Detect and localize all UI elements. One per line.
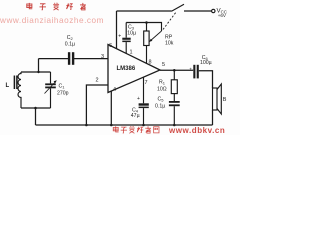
node: tank bottom junction (34, 107, 37, 110)
svg-text:5: 5 (162, 62, 165, 68)
capacitor C3 10u (pin1 to node A) (118, 23, 136, 54)
svg-text:8: 8 (149, 60, 152, 66)
wire: pin 7 down (143, 77, 145, 103)
wire: pin 2 to ground (86, 85, 108, 125)
wire: Vcc top rail from pin6 riser to switch (117, 10, 172, 12)
terminal Vcc (212, 9, 215, 12)
node: pin4 ground dot (110, 124, 113, 127)
wire: tank top rail (21, 71, 51, 73)
wire: switch to Vcc terminal (184, 10, 212, 12)
capacitor C6 100u output (189, 55, 211, 79)
wire: input to pin 3 (39, 58, 69, 60)
op-amp U1 LM386 triangle (108, 45, 160, 93)
wire: pin 5 output (160, 69, 193, 71)
svg-text:0.1µ: 0.1µ (65, 41, 75, 47)
svg-text:100µ: 100µ (200, 60, 212, 66)
svg-text:3: 3 (101, 54, 104, 60)
svg-text:7: 7 (145, 80, 148, 86)
wire: input drop to tank (38, 59, 40, 72)
svg-text:www.dianziaihaozhe.com: www.dianziaihaozhe.com (0, 16, 104, 25)
svg-text:+: + (189, 67, 192, 72)
potentiometer RP 10k (144, 23, 174, 64)
svg-text:L: L (6, 83, 10, 89)
svg-text:0.1µ: 0.1µ (155, 104, 165, 110)
switch S (ganged with RP) blade (172, 4, 185, 11)
svg-text:C1: C1 (59, 84, 66, 90)
wire: gain node A (C3 top / RP top) (126, 23, 161, 32)
node: C5 ground dot (173, 124, 176, 127)
inductor L (6, 72, 22, 108)
svg-text:10µ: 10µ (127, 30, 136, 36)
svg-text:47µ: 47µ (131, 113, 140, 119)
speaker B (213, 84, 227, 114)
svg-text:R1: R1 (159, 80, 166, 86)
svg-text:C2: C2 (67, 35, 74, 41)
svg-text:www.dbkv.cn: www.dbkv.cn (168, 126, 225, 135)
capacitor C4 47u bypass (131, 96, 149, 125)
svg-text:1: 1 (130, 50, 133, 56)
capacitor C5 0.1u zobel (155, 94, 180, 125)
wire: tank to ground rail (35, 108, 37, 125)
wire: tank bottom rail (21, 107, 51, 109)
node: tank top junction (37, 71, 39, 73)
label Vcc +6V (217, 8, 227, 19)
wire: pin 6 riser (116, 11, 118, 49)
wire: speaker to ground rail (212, 110, 214, 125)
svg-text:10Ω: 10Ω (157, 87, 167, 93)
svg-text:+: + (118, 34, 121, 40)
node: pin2 ground dot (85, 124, 88, 127)
svg-text:+6V: +6V (218, 13, 226, 18)
node A junction dot (145, 21, 148, 24)
svg-text:10k: 10k (165, 41, 174, 47)
svg-text:RP: RP (165, 35, 173, 41)
ground rail (36, 124, 213, 126)
dashed link RP wiper to switch (163, 12, 177, 30)
svg-text:2: 2 (96, 78, 99, 84)
node: C4 ground dot (142, 124, 145, 127)
svg-text:C5: C5 (158, 97, 165, 103)
variable capacitor C1 270p (45, 72, 69, 108)
svg-text:4: 4 (113, 87, 116, 93)
wire: C2 to pin 3 (74, 58, 108, 60)
svg-text:+: + (137, 96, 140, 102)
svg-text:B: B (223, 97, 227, 103)
svg-text:270p: 270p (57, 91, 69, 97)
node: output junction dot (173, 69, 176, 72)
resistor R1 10ohm (157, 70, 177, 93)
svg-text:LM386: LM386 (117, 66, 136, 72)
capacitor C2 0.1u input coupling (65, 35, 75, 65)
wire: pin 4 to ground (110, 91, 112, 125)
wire: C6 to speaker (199, 71, 213, 88)
